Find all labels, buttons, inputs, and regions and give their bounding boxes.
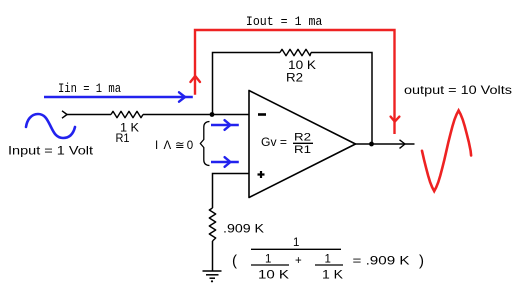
node output junction dot	[369, 142, 374, 147]
svg-text:R2: R2	[286, 73, 303, 85]
blue arrow input bias current lower	[211, 157, 239, 167]
svg-text:= .909 K: = .909 K	[353, 254, 410, 268]
op-amp minus input sign	[258, 113, 266, 116]
output arrowhead	[400, 140, 406, 149]
op-amp U1 triangle	[249, 91, 356, 198]
red arrowhead up on left Iout branch	[190, 76, 200, 82]
label R2	[286, 73, 303, 85]
red arrowhead down on right Iout branch	[391, 117, 400, 122]
svg-text:+: +	[295, 255, 302, 267]
svg-text:R2: R2	[294, 132, 311, 144]
svg-text:1: 1	[265, 254, 271, 266]
ground	[203, 271, 222, 278]
wire R1 to inverting input	[143, 114, 249, 116]
blue arrow input bias current upper	[211, 120, 239, 130]
svg-text:output = 10 Volts: output = 10 Volts	[404, 83, 512, 97]
resistor .909 K vertical	[209, 208, 215, 241]
svg-text:IΛ≅0: IΛ≅0	[155, 140, 193, 152]
wire feedback loop black	[213, 53, 373, 145]
fraction bar 1 over 1K	[315, 264, 343, 266]
svg-text:Input = 1 Volt: Input = 1 Volt	[8, 144, 94, 158]
label 10 K	[288, 60, 316, 72]
wire output	[356, 143, 415, 145]
svg-text:Iout = 1 ma: Iout = 1 ma	[246, 14, 323, 29]
svg-text:Gv =: Gv =	[261, 137, 287, 149]
op-amp plus input sign	[258, 171, 265, 178]
svg-text:R1: R1	[116, 133, 130, 145]
wire resistor to ground	[212, 241, 214, 271]
label Gv = R2/R1 gain formula	[261, 132, 311, 157]
label Input = 1 Volt	[8, 144, 94, 158]
label 1 K	[120, 123, 139, 135]
wire input to R1	[67, 114, 111, 116]
node summing junction dot	[210, 112, 215, 117]
input terminal	[62, 111, 67, 118]
svg-text:1: 1	[293, 237, 299, 249]
fraction bar 1 over 10K	[251, 264, 289, 266]
resistor R1	[111, 111, 143, 117]
svg-text:10 K: 10 K	[258, 270, 289, 282]
svg-text:R1: R1	[294, 144, 311, 156]
wire noninverting input	[213, 174, 250, 209]
label Iin = 1 ma	[58, 81, 121, 96]
label .909 K	[223, 222, 264, 236]
svg-text:): )	[419, 253, 424, 270]
wire red feedback current path Iout	[195, 30, 395, 134]
svg-text:Iin = 1 ma: Iin = 1 ma	[58, 81, 121, 96]
svg-text:(: (	[232, 253, 237, 270]
svg-text:.909 K: .909 K	[223, 222, 264, 236]
fraction main bar	[251, 248, 341, 250]
resistor R2	[280, 49, 311, 55]
fraction bar R2 over R1	[293, 142, 313, 144]
label R1	[116, 133, 130, 145]
svg-text:1: 1	[325, 254, 331, 266]
svg-text:10 K: 10 K	[288, 60, 316, 72]
svg-text:1 K: 1 K	[322, 270, 343, 282]
input source sine wave	[26, 114, 75, 138]
curly brace	[200, 122, 209, 166]
output sine wave red	[422, 111, 471, 192]
label output = 10 Volts	[404, 83, 512, 97]
wire blue Iin current arrow	[44, 92, 193, 101]
formula parallel resistance	[232, 237, 424, 282]
label Iout = 1 ma	[246, 14, 323, 29]
label I delta approx 0	[155, 140, 193, 152]
